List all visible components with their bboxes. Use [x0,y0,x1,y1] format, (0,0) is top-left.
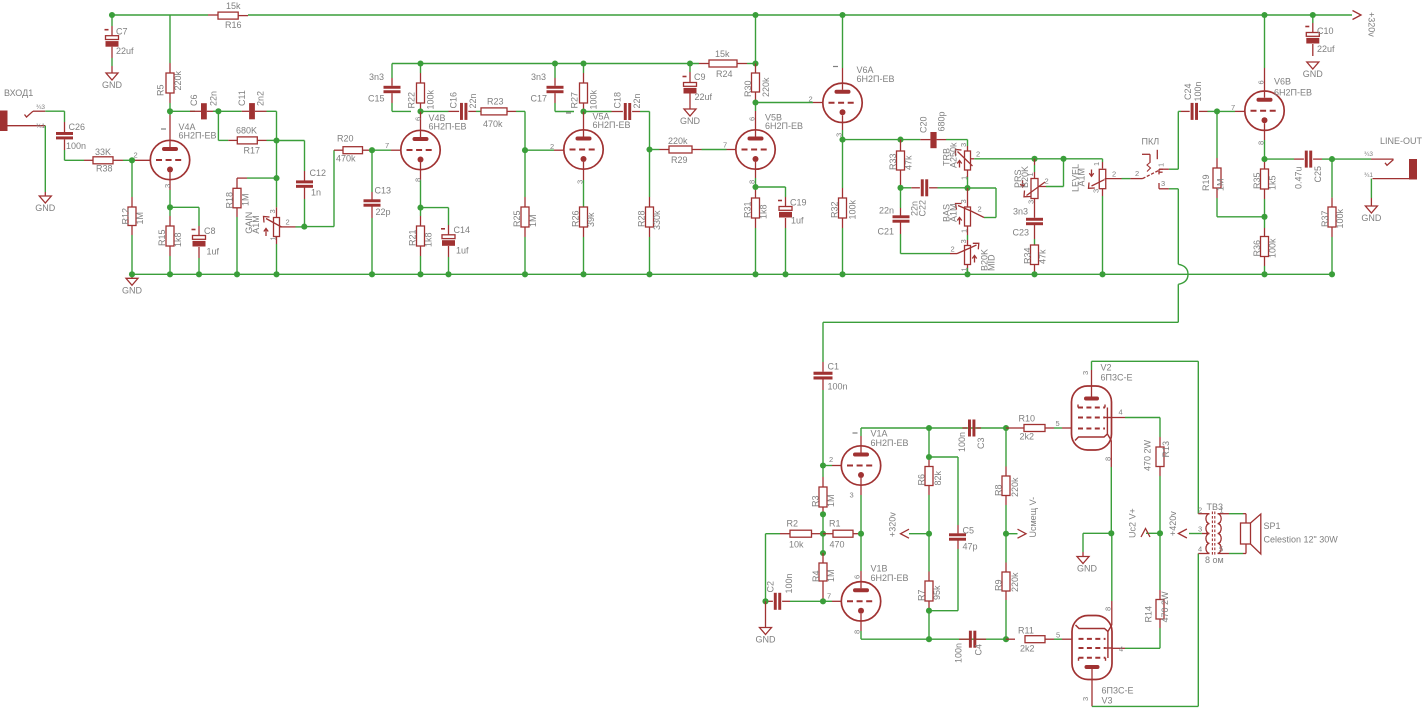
capacitor C6 22n [170,110,195,112]
node bus C19 [782,271,788,277]
svg-text:100k: 100k [848,199,858,219]
resistor R34 47k [1034,239,1036,245]
resistor R23 470k [481,108,507,115]
tube V3 6П3С-Е pentode [1072,616,1112,680]
svg-text:2: 2 [1198,506,1202,515]
node C25 R37 [1329,156,1335,162]
tube V6B 6Н2П-ЕВ triode [1264,15,1266,68]
wire PRS wiper [1046,186,1064,188]
node rail2 R22 [417,60,423,66]
svg-text:R30: R30 [743,80,753,97]
wire grid V1B [823,600,832,602]
tube V5A 6Н2П-ЕВ triode [564,130,603,169]
svg-text:22uf: 22uf [695,92,713,102]
resistor R24 15k [699,63,709,65]
capacitor C18 22n [584,111,612,113]
svg-text:R18: R18 [225,192,235,209]
node V5B anode [752,99,758,105]
capacitor C4 100n [959,638,969,640]
wire V3 anode to transformer [1092,705,1198,707]
capacitor C8 1uf electrolytic [198,226,200,236]
svg-text:R21: R21 [408,229,418,246]
tube V1A 6Н2П-ЕВ triode [841,446,880,485]
tube V4B 6Н2П-ЕВ triode [401,130,440,169]
svg-text:R9: R9 [994,579,1004,591]
svg-text:R11: R11 [1018,626,1034,636]
node R33 top [897,137,903,143]
svg-text:220k: 220k [1010,477,1020,497]
capacitor C3 100n [962,427,967,429]
svg-text:6: 6 [748,117,757,121]
wire to phase inverter [823,321,1178,323]
svg-text:R29: R29 [671,155,688,165]
svg-text:8 ом: 8 ом [1205,555,1224,565]
svg-text:C17: C17 [531,94,548,104]
svg-text:3: 3 [576,180,585,184]
ground main bus [131,274,133,278]
node rail1 V6A [839,12,845,18]
svg-text:470 2W: 470 2W [1142,439,1152,471]
svg-text:GND: GND [1077,564,1098,574]
svg-text:1: 1 [269,236,278,240]
resistor R15 1k8 [169,207,171,216]
svg-text:R27: R27 [570,92,580,109]
svg-text:R10: R10 [1019,414,1036,424]
svg-text:LINE-OUT: LINE-OUT [1380,136,1423,146]
svg-text:R28: R28 [637,210,647,227]
svg-text:22n: 22n [879,206,894,216]
resistor R1 470 [823,533,833,535]
svg-text:3: 3 [163,184,172,188]
svg-text:1: 1 [1092,162,1101,166]
svg-text:GND: GND [756,635,777,645]
svg-text:R25: R25 [512,210,522,227]
node bus R32 [839,271,845,277]
svg-text:1: 1 [1220,506,1224,515]
node rail2 C17 [552,60,558,66]
node bus R34 [1031,271,1037,277]
node V2 V3 cathodes [1108,530,1114,536]
resistor R37 100k [1331,159,1333,198]
ground LINE-OUT [1370,198,1372,206]
node TRB wiper PRS [1031,156,1037,162]
svg-text:+320v: +320v [1367,12,1377,37]
node V1B grid [820,598,826,604]
wire cathode to C8 [170,206,199,208]
svg-text:R26: R26 [571,210,581,227]
svg-text:1: 1 [1157,163,1166,167]
svg-text:4: 4 [1198,545,1202,554]
svg-text:2: 2 [286,218,290,227]
svg-text:0.47u: 0.47u [1294,166,1304,189]
svg-text:R23: R23 [487,97,504,107]
svg-text:2: 2 [978,205,982,214]
wire node to R18 [276,141,278,208]
svg-text:C14: C14 [454,225,471,235]
svg-text:C8: C8 [204,226,216,236]
resistor R2 10k [766,533,781,535]
svg-text:1: 1 [960,176,969,180]
svg-text:2: 2 [1135,169,1139,178]
resistor R26 39k [583,206,585,208]
svg-text:R37: R37 [1320,210,1330,227]
node bus MID [964,271,970,277]
node V4A anode [167,108,173,114]
resistor R12 1M [131,160,133,197]
svg-text:Celestion 12" 30W: Celestion 12" 30W [1264,535,1339,545]
svg-text:R38: R38 [96,164,113,174]
ground C7 [111,66,113,73]
capacitor C15 3n3 [391,64,393,79]
node R13 R14 +420 [1157,530,1163,536]
wire grid V1A [823,465,832,467]
wire jack pin1 to gnd [44,126,46,192]
svg-text:R4: R4 [811,570,821,582]
capacitor C1 100n [822,362,824,372]
svg-text:33K: 33K [95,147,111,157]
svg-text:C26: C26 [69,122,86,132]
tube V1B 6Н2П-ЕВ triode [841,582,880,621]
capacitor C22 22n [901,187,912,189]
svg-text:470k: 470k [483,119,503,129]
node bus R15 [167,271,173,277]
svg-text:100n: 100n [66,141,86,151]
svg-text:C6: C6 [189,94,199,106]
svg-text:8: 8 [853,630,862,634]
ground C10 [1307,62,1319,69]
svg-text:1uf: 1uf [456,246,469,256]
node bus R12 [129,271,135,277]
wire ground bus [132,273,1332,275]
resistor R27 100k [583,64,585,74]
svg-text:R7: R7 [917,589,927,601]
wire R24 rail link [755,15,757,64]
svg-text:8: 8 [1104,607,1113,611]
node C6 C11 [215,108,221,114]
svg-text:1M: 1M [826,569,836,582]
svg-text:1k8: 1k8 [173,232,183,247]
wire LINE-OUT pin1 to gnd [1370,179,1372,198]
svg-text:A1M: A1M [949,203,959,222]
node V1B cathode R7 [926,636,932,642]
svg-text:C23: C23 [1013,228,1030,238]
supply arrow +320v phase inverter [909,533,929,535]
wire V2 anode to transformer [1092,360,1199,362]
svg-text:1M: 1M [1216,178,1226,191]
svg-text:R36: R36 [1252,240,1262,257]
node C5 top [926,454,932,460]
svg-text:GND: GND [122,285,143,295]
node cathode V6B [1261,156,1267,162]
svg-text:2: 2 [1112,170,1116,179]
resistor R3 1M [822,466,824,478]
svg-text:C1: C1 [828,362,840,372]
wire jack pin3 to C26 [45,110,64,112]
wire C26 to R38 [64,150,66,160]
wire node to C12 [277,140,305,142]
potentiometer TRB A250k [967,146,969,151]
svg-text:R24: R24 [716,69,733,79]
svg-text:2k2: 2k2 [1020,644,1035,654]
node R3 bottom [820,511,826,517]
node cathode V5B [752,184,758,190]
svg-text:5: 5 [1056,630,1060,639]
wire R2 R1 node chain [822,514,824,553]
node bus C13 [369,271,375,277]
svg-text:3: 3 [268,209,277,213]
capacitor C9 22uf electrolytic [689,64,691,73]
svg-text:22n: 22n [208,91,218,106]
node bus GAIN [273,271,279,277]
node V5A grid [522,147,528,153]
svg-text:6П3С-Е: 6П3С-Е [1101,373,1133,383]
capacitor C21 22n [900,188,902,208]
node V4B grid [369,147,375,153]
svg-text:1uf: 1uf [791,216,804,226]
svg-text:47p: 47p [963,542,978,552]
svg-text:2n2: 2n2 [256,91,266,106]
svg-text:100n: 100n [784,573,794,593]
wire V1B cathode line [861,638,1006,640]
svg-text:2: 2 [976,150,980,159]
resistor R29 220k [650,149,660,151]
svg-text:ПКЛ: ПКЛ [1142,137,1160,147]
svg-text:C21: C21 [878,227,895,237]
node R35 R36 [1261,214,1267,220]
svg-text:7: 7 [723,141,727,150]
svg-text:C5: C5 [963,526,975,536]
svg-text:C10: C10 [1317,26,1334,36]
svg-text:2: 2 [134,151,138,160]
svg-text:22n: 22n [468,93,478,108]
svg-text:3: 3 [959,199,968,203]
svg-text:A1M: A1M [1077,168,1087,187]
node GAIN wiper [301,224,307,230]
tube V5B 6Н2П-ЕВ triode [736,130,775,169]
wire R2 to C2 [765,534,767,602]
supply arrow +320v right [1353,11,1362,20]
svg-text:47k: 47k [904,155,914,170]
node R18 top [273,175,279,181]
supply arrow Uсмещ V- [1006,533,1018,535]
svg-text:V1A: V1A [871,429,888,439]
wire grid V6B [1217,110,1235,112]
node rail1 C10 [1310,12,1316,18]
capacitor C12 1n [304,171,306,181]
svg-text:R3: R3 [811,495,821,507]
node bus R28 [646,271,652,277]
svg-text:V1B: V1B [871,564,888,574]
resistor R20 470k [333,149,335,151]
svg-text:470 2W: 470 2W [1160,591,1170,623]
svg-text:100k: 100k [426,89,436,109]
svg-text:100n: 100n [954,643,964,663]
svg-text:C25: C25 [1313,166,1323,183]
svg-text:680p: 680p [937,111,947,131]
svg-text:3: 3 [959,143,968,147]
svg-text:C12: C12 [310,168,327,178]
svg-text:C15: C15 [368,94,385,104]
wire rail2 B+ to stages 2-3 [392,63,699,65]
wire cathode V4B to C14 [421,207,449,209]
node rail2 R24 [752,60,758,66]
svg-text:6Н2П-ЕВ: 6Н2П-ЕВ [179,131,217,141]
svg-text:GND: GND [1361,213,1382,223]
svg-text:1: 1 [1026,172,1035,176]
capacitor C10 22uf electrolytic [1312,15,1314,23]
potentiometer LEVEL A1M [1102,159,1104,162]
resistor R31 1k8 [755,187,757,190]
svg-text:6Н2П-ЕВ: 6Н2П-ЕВ [765,121,803,131]
resistor R30 220k [755,64,757,74]
node R9 bottom [1003,636,1009,642]
svg-text:R15: R15 [157,229,167,246]
svg-text:5: 5 [1219,545,1223,554]
svg-text:R14: R14 [1144,606,1154,623]
potentiometer PRS B20K [1034,159,1036,165]
svg-text:3: 3 [1081,697,1090,701]
node R4 top [820,550,826,556]
wire cathodes to gnd [1083,532,1111,534]
svg-text:+420v: +420v [1168,511,1178,536]
svg-text:220k: 220k [1010,572,1020,592]
svg-text:GND: GND [1303,69,1324,79]
capacitor C5 47p [929,456,958,458]
potentiometer GAIN A1M [276,207,278,217]
svg-text:470: 470 [830,540,845,550]
node C5 bottom [926,608,932,614]
node R8 top [1003,425,1009,431]
svg-text:3: 3 [835,133,844,137]
capacitor C20 680p [920,139,930,141]
wire V3 cathode [1111,601,1113,625]
tube V6A 6Н2П-ЕВ triode [842,15,844,68]
svg-text:6П3С-Е: 6П3С-Е [1102,686,1134,696]
resistor R35 1k5 [1264,159,1266,162]
svg-text:4: 4 [1119,645,1123,654]
svg-text:7: 7 [1231,103,1235,112]
node cathode V6A [839,137,845,143]
svg-text:6Н2П-ЕВ: 6Н2П-ЕВ [871,438,909,448]
wire switch pin3 down to power amp [1169,188,1178,190]
svg-text:8: 8 [1104,457,1113,461]
node V1A cathode R1 [858,531,864,537]
capacitor C14 1uf electrolytic [448,225,450,235]
capacitor C23 3n3 [1034,199,1036,218]
svg-text:R19: R19 [1201,174,1211,191]
potentiometer MID B20K [967,235,969,240]
svg-text:3: 3 [959,239,968,243]
svg-text:¾3: ¾3 [1364,151,1373,158]
svg-text:2: 2 [1045,177,1049,186]
ground C2 [765,601,767,627]
capacitor C25 0.47u [1265,158,1295,160]
node rail2 C9 [687,60,693,66]
resistor R8 220k [1005,428,1007,467]
wire C11 to R17 node [276,111,278,140]
svg-text:C18: C18 [613,92,623,109]
svg-text:C4: C4 [974,644,984,656]
svg-text:V2: V2 [1101,363,1112,373]
wire +320v top rail [112,14,208,16]
resistor R18 1M [247,177,277,179]
node cathode V4A [167,204,173,210]
tube V4A 6Н2П-ЕВ triode [150,140,189,179]
potentiometer BAS A1M [967,188,969,207]
node rail C7 [109,12,115,18]
svg-text:1k8: 1k8 [424,232,434,247]
svg-text:3: 3 [850,491,854,500]
node R6 anode line [926,425,932,431]
svg-text:R32: R32 [830,201,840,218]
svg-text:R33: R33 [888,153,898,170]
svg-text:ВХОД1: ВХОД1 [4,88,33,98]
svg-text:2: 2 [951,245,955,254]
node tone mid [964,185,970,191]
resistor R25 1M [524,150,526,197]
wire cathode V6A to tone stack [843,139,921,141]
speaker SP1 Celestion [1243,513,1246,515]
wire R14 to V3 screen [1125,647,1160,649]
svg-text:1M: 1M [528,214,538,227]
svg-text:7: 7 [827,592,831,601]
svg-text:15k: 15k [226,1,241,11]
svg-text:100n: 100n [828,382,848,392]
supply arrow +420v [1189,533,1202,535]
node grid V4A [129,157,135,163]
resistor R21 1k8 [420,208,422,216]
svg-text:A1M: A1M [251,215,261,234]
svg-text:220k: 220k [668,136,688,146]
svg-text:5: 5 [1056,419,1060,428]
resistor R6 82k [928,428,930,457]
svg-text:R34: R34 [1023,247,1033,264]
svg-text:2: 2 [809,95,813,104]
svg-text:C20: C20 [919,116,929,133]
svg-text:100k: 100k [589,89,599,109]
svg-text:8: 8 [748,180,757,184]
svg-text:4: 4 [1119,408,1123,417]
svg-text:3: 3 [1092,189,1101,193]
resistor R17 680K [217,111,219,140]
node bus R36 [1261,271,1267,277]
svg-text:C11: C11 [237,90,247,106]
svg-text:R17: R17 [244,146,261,156]
svg-text:¾1: ¾1 [36,123,45,130]
wire switch pin1 to C24 [1169,168,1178,170]
resistor R11 2k2 [1006,638,1015,640]
svg-text:1M: 1M [135,212,145,225]
connector ВХОД1 jack [0,111,8,132]
svg-text:82k: 82k [933,470,943,485]
capacitor C13 22p [371,150,373,192]
node bus C14 [445,271,451,277]
resistor R36 100k [1264,217,1266,228]
svg-text:C19: C19 [790,198,807,208]
svg-text:C9: C9 [694,72,706,82]
ground input jack [44,192,46,196]
capacitor C24 100n [1181,110,1190,112]
wire transformer secondary to speaker [1229,513,1243,515]
node R33 bottom [897,185,903,191]
svg-text:C16: C16 [449,92,459,109]
svg-text:GND: GND [102,80,123,90]
svg-text:R13: R13 [1161,441,1171,458]
resistor R9 220k [1005,534,1007,563]
capacitor C26 100n [64,122,66,132]
resistor R28 330k [649,150,651,198]
svg-text:SP1: SP1 [1264,521,1281,531]
